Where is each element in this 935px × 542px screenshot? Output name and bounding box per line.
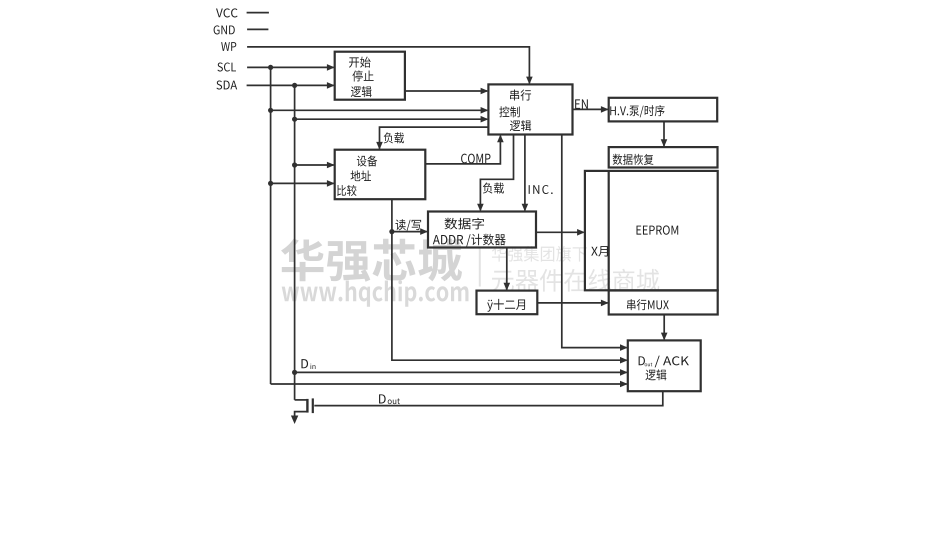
- pin label SCL: [217, 62, 236, 71]
- wire read/write from device-address-compare: [392, 199, 627, 360]
- watermark www.hqchip.com: [282, 280, 469, 307]
- wire SCL bottom run to Dout/ACK logic: [271, 383, 627, 385]
- GND stub wire: [247, 28, 268, 30]
- MOSFET gate bar: [312, 398, 314, 413]
- watermark 华强芯城: [281, 239, 462, 282]
- label X Dec: [591, 246, 608, 256]
- watermark 华强集团旗下: [492, 246, 587, 262]
- label load1 负载: [384, 132, 404, 143]
- label Din: [301, 359, 308, 368]
- junction Din: [292, 370, 297, 375]
- wire serial MUX to Dout/ACK logic: [663, 315, 665, 340]
- block device address compare: [335, 150, 426, 200]
- label EN: [575, 99, 588, 109]
- label load2 负载: [483, 183, 504, 194]
- wire Dout from Dout/ACK logic to output MOSFET gate: [314, 391, 663, 405]
- junction SCL branch 1: [268, 108, 273, 113]
- junction read/write: [389, 229, 394, 234]
- wire load1 from serial-control to device-address-compare: [380, 127, 489, 148]
- wire SDA branch to serial-control-logic: [295, 118, 488, 120]
- wire HV pump to data recovery: [663, 121, 665, 145]
- wire read/write branch to addr-counter: [392, 231, 427, 233]
- wire SCL branch to serial-control-logic: [271, 109, 488, 111]
- block data recovery: [609, 147, 718, 167]
- block H.V. pump / timing: [609, 98, 718, 122]
- VCC stub wire: [247, 12, 269, 14]
- block data word addr/counter: [428, 212, 536, 248]
- label Dout: [379, 394, 386, 403]
- junction SDA/stub: [292, 83, 297, 88]
- label COMP: [461, 154, 490, 164]
- wire Din to Dout/ACK logic: [295, 371, 627, 373]
- label INC.: [529, 185, 553, 194]
- pin label SDA: [216, 80, 237, 89]
- block Dout/ACK logic: [628, 340, 701, 391]
- SCL vertical bus: [270, 67, 272, 384]
- wire serial-control to Dout/ACK logic row1: [562, 135, 627, 348]
- wire SCL to start-stop-logic: [247, 66, 333, 68]
- junction SCL branch 2: [268, 181, 273, 186]
- block serial control logic: [488, 84, 572, 134]
- block Y dec: [477, 291, 538, 315]
- wire addr-counter to X-dec: [536, 231, 584, 233]
- junction SDA branch 1: [292, 117, 297, 122]
- wire INC from serial-control to addr-counter: [524, 135, 526, 211]
- wire addr-counter to Y-dec: [506, 248, 508, 290]
- wire SDA branch to device-address-compare: [295, 164, 334, 166]
- wire Y-dec to serial MUX: [537, 302, 607, 304]
- wire EN to HV pump: [573, 108, 608, 110]
- block start/stop logic: [335, 52, 405, 100]
- watermark divider bar: [479, 249, 481, 287]
- label EEPROM: [637, 225, 679, 234]
- label 读/写: [395, 219, 421, 231]
- wire SDA to start-stop-logic: [247, 84, 334, 86]
- wire COMP from device-address-compare to serial-control: [425, 136, 500, 164]
- pin label GND: [214, 25, 235, 34]
- output MOSFET Q1 open-drain on SDA: [295, 399, 308, 401]
- junction SDA branch 2: [292, 162, 297, 167]
- pin label VCC: [216, 8, 238, 17]
- block serial MUX: [609, 291, 718, 315]
- SDA vertical bus: [294, 85, 296, 400]
- pin label WP: [221, 42, 236, 51]
- watermark 元器件在线商城: [492, 269, 660, 292]
- block EEPROM array with X-dec: [585, 171, 718, 290]
- ground arrow of MOSFET source: [291, 416, 298, 425]
- wire start/stop to serial-control-logic: [405, 90, 487, 92]
- wire load2 from serial-control to addr-counter: [480, 135, 513, 211]
- wire SCL branch to device-address-compare: [271, 182, 334, 184]
- junction SCL/stub: [268, 65, 273, 70]
- wire WP to serial-control-logic top: [247, 47, 529, 83]
